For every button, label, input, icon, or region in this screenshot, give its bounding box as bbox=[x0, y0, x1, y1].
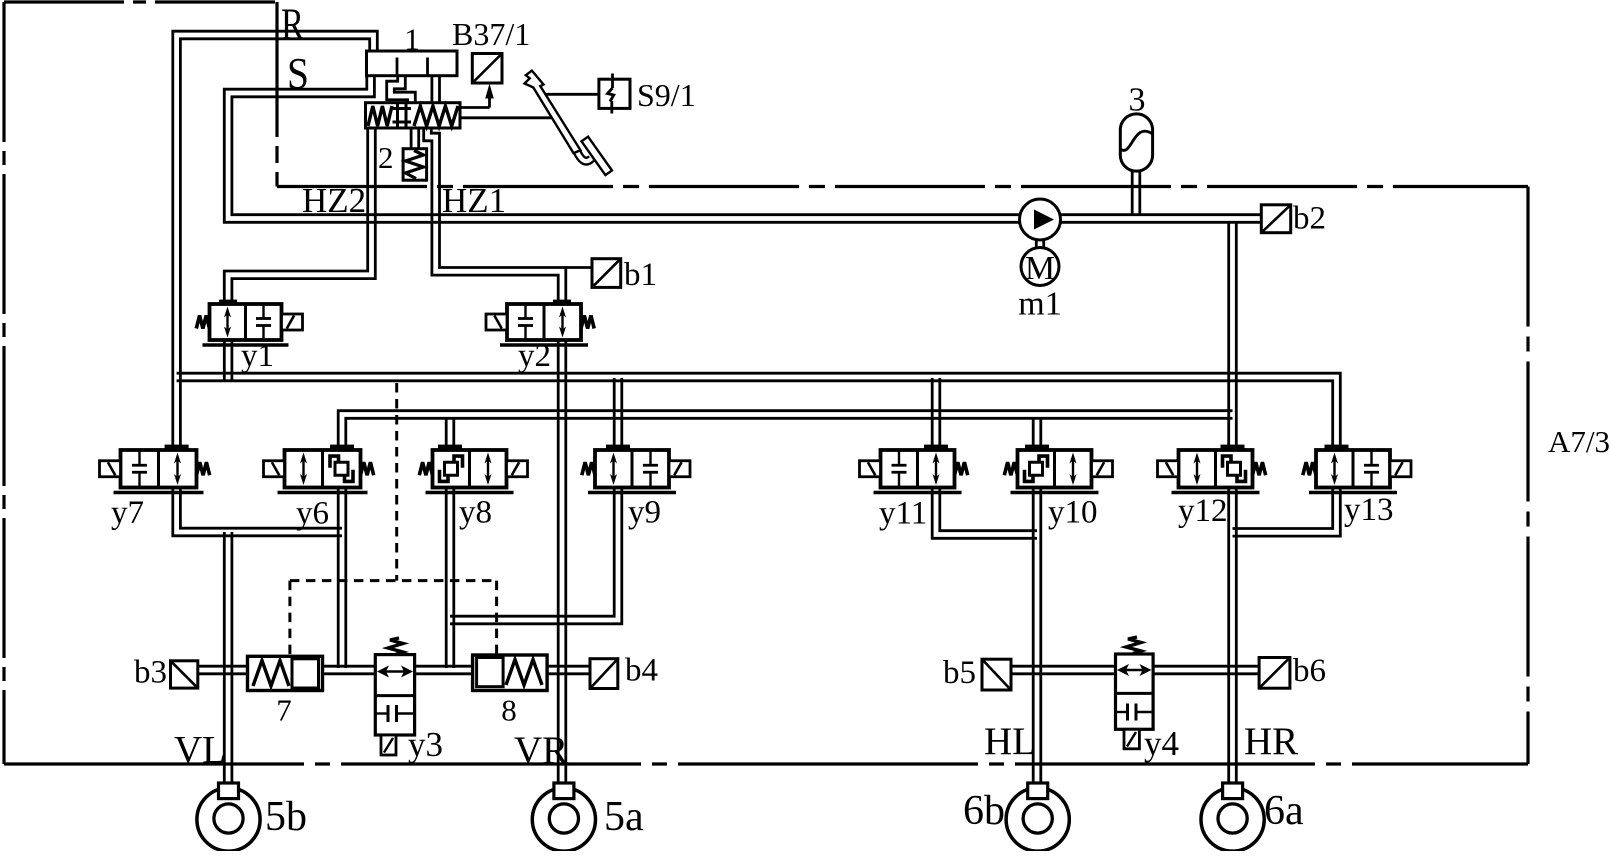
svg-text:HZ2: HZ2 bbox=[302, 181, 366, 220]
svg-text:5b: 5b bbox=[265, 794, 307, 840]
svg-text:M: M bbox=[1025, 250, 1055, 287]
svg-text:HR: HR bbox=[1244, 720, 1298, 763]
svg-text:y2: y2 bbox=[518, 338, 551, 374]
svg-text:R: R bbox=[281, 0, 305, 49]
svg-text:6a: 6a bbox=[1264, 788, 1304, 834]
svg-text:y4: y4 bbox=[1144, 724, 1179, 763]
svg-text:b1: b1 bbox=[624, 257, 657, 293]
svg-text:3: 3 bbox=[1129, 82, 1146, 119]
svg-text:B37/1: B37/1 bbox=[452, 16, 530, 52]
svg-text:y6: y6 bbox=[296, 496, 329, 532]
svg-text:y1: y1 bbox=[241, 338, 274, 374]
svg-text:b3: b3 bbox=[134, 655, 167, 691]
svg-text:y3: y3 bbox=[408, 725, 443, 764]
svg-text:y12: y12 bbox=[1178, 493, 1228, 529]
svg-text:VL: VL bbox=[174, 729, 226, 772]
svg-text:2: 2 bbox=[378, 140, 394, 175]
svg-text:y9: y9 bbox=[628, 495, 661, 531]
svg-text:y7: y7 bbox=[111, 495, 144, 531]
svg-text:b4: b4 bbox=[625, 653, 658, 689]
svg-text:b5: b5 bbox=[943, 655, 976, 691]
svg-text:S: S bbox=[287, 49, 309, 98]
svg-text:b6: b6 bbox=[1293, 653, 1326, 689]
svg-text:y11: y11 bbox=[879, 496, 927, 532]
svg-text:y13: y13 bbox=[1344, 492, 1394, 528]
svg-text:VR: VR bbox=[514, 729, 568, 772]
svg-text:HL: HL bbox=[984, 720, 1036, 763]
svg-text:5a: 5a bbox=[604, 794, 644, 840]
svg-text:y8: y8 bbox=[459, 495, 492, 531]
svg-text:8: 8 bbox=[501, 693, 517, 728]
svg-text:S9/1: S9/1 bbox=[637, 77, 696, 113]
svg-text:m1: m1 bbox=[1018, 286, 1061, 323]
svg-text:y10: y10 bbox=[1048, 495, 1098, 531]
svg-text:HZ1: HZ1 bbox=[442, 181, 506, 220]
svg-text:1: 1 bbox=[404, 22, 420, 57]
svg-text:A7/3: A7/3 bbox=[1548, 424, 1610, 459]
svg-text:b2: b2 bbox=[1293, 201, 1326, 237]
svg-text:6b: 6b bbox=[963, 788, 1005, 834]
svg-text:7: 7 bbox=[276, 693, 292, 728]
